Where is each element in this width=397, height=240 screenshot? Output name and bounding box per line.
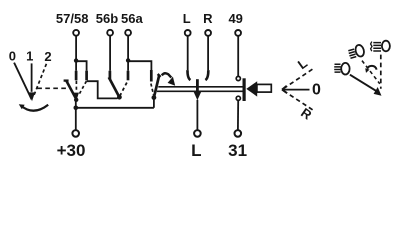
rotation arrow right symbol — [367, 66, 376, 70]
junction bus — [74, 106, 79, 111]
headlamp icon A lamp — [341, 63, 349, 75]
terminal 31 — [235, 130, 242, 137]
wire 56a branch to rod contact — [128, 61, 151, 70]
rod lower line — [157, 90, 243, 92]
wiper bar L/R — [196, 79, 199, 92]
rotary pointer line 1 — [31, 63, 33, 91]
svg-text:R: R — [203, 11, 213, 26]
wiper tip blob rod-side — [158, 74, 161, 77]
svg-text:L: L — [183, 11, 191, 26]
wire L lead — [187, 36, 189, 70]
lever dashed line R — [284, 91, 314, 111]
wiper arrow L/R — [194, 92, 201, 100]
lever arrowhead at pivot — [374, 87, 382, 96]
wiper arm 56 solid — [109, 77, 120, 97]
svg-text:56b: 56b — [96, 11, 118, 26]
wire contact link elbow — [87, 81, 118, 98]
terminal L top — [185, 30, 191, 36]
rod upper line — [158, 86, 242, 88]
headlamp icon C lamp — [382, 41, 390, 52]
dashed wiper position 56 — [120, 81, 128, 96]
headlamp icon B beams — [347, 44, 365, 60]
rotary position line 0 solid — [14, 63, 32, 100]
svg-text:57/58: 57/58 — [56, 11, 89, 26]
terminal 56a — [125, 30, 131, 36]
svg-text:0: 0 — [312, 82, 321, 99]
rod end plate — [243, 78, 246, 101]
junction 57/58 — [74, 58, 78, 62]
wire 56a lead — [127, 36, 129, 71]
wire bus to +30 — [75, 108, 77, 130]
rotary position line 2 dashed — [33, 64, 46, 97]
terminal 56b — [107, 30, 113, 36]
dashed link to switch — [37, 87, 66, 89]
svg-text:31: 31 — [228, 141, 247, 160]
wiper foot 57/58 — [64, 79, 69, 81]
wiper pivot arrow 57/58 — [74, 93, 79, 101]
terminal R top — [205, 30, 211, 36]
rod handle rectangle — [257, 84, 271, 92]
rod arrowhead — [246, 81, 257, 96]
svg-text:56a: 56a — [121, 11, 143, 26]
wiper arm 57/58 — [66, 81, 76, 99]
headlamp icon C squiggle — [371, 42, 372, 52]
wire 49 lead — [237, 36, 239, 76]
headlamp icon C beams — [373, 43, 381, 51]
junction 56a — [126, 58, 130, 62]
svg-text:1: 1 — [26, 48, 33, 63]
pivot dot 57/58 — [74, 98, 78, 102]
svg-text:0: 0 — [9, 48, 16, 63]
lever arrow solid to pivot — [350, 75, 377, 92]
contact bar R — [205, 70, 208, 80]
pivot dot 56 — [117, 95, 122, 100]
svg-text:2: 2 — [44, 49, 51, 64]
contact bar 57/58 right — [85, 71, 88, 81]
rotary pointer arrowhead — [29, 92, 35, 101]
svg-text:+30: +30 — [57, 141, 86, 160]
contact bar rod-side — [150, 70, 153, 82]
wire 56b lead — [109, 36, 111, 71]
wire R lead — [207, 36, 209, 70]
dashed lever position C vertical — [380, 55, 382, 89]
svg-text:49: 49 — [228, 11, 242, 26]
contact bar 56b — [109, 71, 112, 80]
terminal L bottom — [194, 130, 201, 137]
wiper arm rod-side — [154, 75, 159, 98]
ring contact 49 upper — [236, 76, 240, 80]
wire bus horizontal — [76, 107, 154, 109]
pivot dot rod-side — [152, 95, 157, 100]
wire pivot to bus — [75, 100, 77, 108]
curved actuation arrow at rod left — [162, 73, 172, 77]
terminal 49 — [235, 30, 241, 36]
lever position vertex — [282, 89, 309, 91]
lever vertex wedge — [282, 86, 287, 93]
contact bar 57/58 left — [75, 71, 78, 81]
dashed wiper position diagonal 57/58 — [78, 81, 86, 96]
wire 57/58 branch — [76, 61, 87, 70]
svg-text:L: L — [191, 141, 201, 160]
contact bar 56a — [127, 71, 130, 81]
headlamp icon B lamp — [354, 44, 365, 58]
wire bus riser to rod pivot — [153, 98, 155, 108]
contact bar L — [187, 70, 190, 80]
rotation arc — [21, 105, 48, 111]
headlamp icon A beams — [334, 64, 340, 72]
terminal +30 — [72, 130, 79, 137]
ring contact 49 lower — [236, 96, 240, 100]
wire wiper to bottom L — [196, 100, 198, 130]
terminal 57/58 — [73, 30, 79, 36]
rotation arc arrowhead — [19, 104, 25, 109]
dashed wiper position rod-side — [151, 84, 154, 95]
wire 57/58 lead — [75, 36, 77, 70]
dashed wiper position vertical 57/58 — [75, 81, 77, 92]
lever dashed line L — [284, 69, 314, 89]
wire ring to 31 — [237, 101, 239, 131]
dashed lever position B — [362, 61, 380, 84]
